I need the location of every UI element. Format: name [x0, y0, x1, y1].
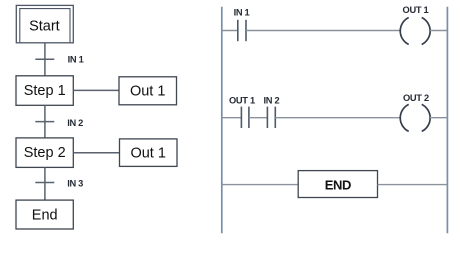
- svg-text:Step 1: Step 1: [24, 83, 66, 99]
- wire from Start to transition IN 1: [44, 43, 46, 76]
- svg-text:OUT 1: OUT 1: [403, 5, 429, 15]
- step box Step 1: [16, 76, 73, 106]
- rung 3 wire: END box to right rail: [378, 184, 448, 186]
- coil OUT 2: [400, 104, 430, 131]
- contact OUT 1 (normally open): [241, 107, 249, 128]
- step box Step 2: [16, 138, 73, 168]
- rung 2 wire between contacts: [249, 117, 268, 119]
- step box Start (initial step, double border): [16, 5, 73, 42]
- svg-text:Start: Start: [29, 18, 60, 34]
- svg-text:END: END: [325, 177, 351, 192]
- rung 2 wire: coil to right rail: [430, 117, 447, 119]
- svg-text:Out 1: Out 1: [130, 145, 165, 161]
- svg-text:IN 2: IN 2: [263, 96, 279, 106]
- wire Step 2 to Out 1: [73, 152, 119, 154]
- svg-text:IN 3: IN 3: [67, 179, 83, 189]
- svg-text:OUT 1: OUT 1: [229, 96, 255, 106]
- contact IN 1 (normally open): [238, 20, 246, 41]
- action box Out 1 (first): [119, 77, 177, 105]
- svg-text:IN 1: IN 1: [234, 7, 250, 17]
- svg-text:OUT 2: OUT 2: [403, 93, 429, 103]
- wire Step 2 to transition IN 3: [44, 167, 46, 200]
- rung 2 wire: rail to contact OUT 1: [222, 117, 242, 119]
- svg-text:End: End: [32, 207, 58, 223]
- transition IN 3 tick: [35, 182, 54, 184]
- transition IN 2 tick: [35, 121, 54, 123]
- step box End: [16, 200, 73, 229]
- rung 3 wire: rail to END box: [222, 184, 298, 186]
- action box Out 1 (second): [120, 139, 178, 167]
- svg-text:Step 2: Step 2: [24, 145, 66, 161]
- ladder left power rail: [221, 7, 223, 233]
- rung 1 wire: contact to coil OUT 1: [246, 30, 400, 32]
- transition IN 1 tick: [35, 58, 54, 60]
- ladder right power rail: [446, 7, 448, 233]
- rung 2 wire: contact to coil OUT 2: [275, 117, 400, 119]
- svg-text:IN 2: IN 2: [67, 118, 83, 128]
- rung 1 wire: rail to contact IN 1: [222, 30, 238, 32]
- wire Step 1 to transition IN 2: [44, 105, 46, 138]
- rung 1 wire: coil to right rail: [430, 30, 447, 32]
- wire Step 1 to Out 1: [73, 89, 119, 91]
- svg-text:IN 1: IN 1: [68, 54, 84, 64]
- coil OUT 1: [400, 18, 430, 45]
- contact IN 2 (normally open): [267, 107, 275, 128]
- END instruction box: [298, 171, 377, 198]
- svg-text:Out 1: Out 1: [130, 83, 165, 99]
